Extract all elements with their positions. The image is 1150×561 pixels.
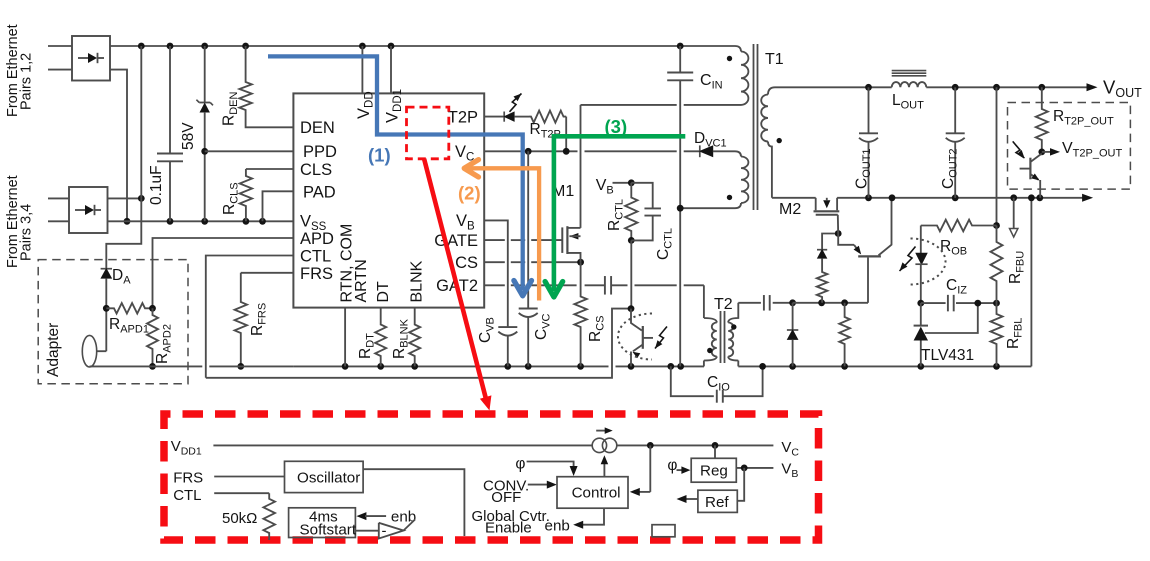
resistor RAPD1 — [106, 303, 152, 313]
svg-text:Ref: Ref — [705, 494, 729, 511]
pin label DT — [375, 281, 392, 303]
svg-text:0.1uF: 0.1uF — [148, 165, 165, 205]
svg-text:TLV431: TLV431 — [921, 347, 974, 364]
resistor RCTL — [625, 183, 637, 241]
diode + resistor to M2 gate node — [822, 234, 838, 250]
wire+cap: T2 secondary output — [738, 302, 761, 304]
capacitor CCTL — [631, 183, 652, 209]
LED + light arrow on T2P — [484, 116, 504, 118]
capacitor COUT2 — [954, 87, 956, 133]
optocoupler transistor T2P_OUT — [1029, 158, 1031, 180]
wire reg to VB — [736, 467, 773, 469]
wire: PPD to zener node — [205, 150, 294, 152]
annotation orange path (2) — [469, 168, 539, 300]
wire: primary ground rail — [293, 365, 608, 367]
svg-text:DT: DT — [375, 281, 392, 303]
T1 secondary winding — [768, 87, 775, 94]
svg-text:Oscillator: Oscillator — [297, 469, 360, 486]
svg-text:FRS: FRS — [173, 470, 203, 487]
wire: VSS rail (negative) — [108, 220, 294, 222]
pin label BLNK — [409, 260, 426, 302]
diode DA — [106, 198, 141, 268]
arrow VT2P_OUT — [1042, 151, 1052, 153]
wire: M2-gate drive rail — [793, 302, 868, 304]
svg-text:ARTN: ARTN — [353, 259, 370, 302]
wire: FRS pin — [241, 272, 294, 274]
T2 secondary winding — [728, 303, 738, 323]
reg block — [691, 458, 736, 482]
wire: output return rail — [772, 197, 816, 199]
annotation green path (3) — [554, 136, 685, 291]
svg-text:φ: φ — [667, 457, 677, 474]
T2 primary polarity dot — [707, 348, 712, 353]
wire: VC line (detail) — [617, 444, 774, 446]
label: Adapter — [45, 323, 62, 377]
wire: VDD1 to current source — [213, 444, 592, 446]
resistor RDT — [375, 308, 386, 367]
rectifier diode (T2 out) — [792, 303, 794, 330]
transistor M1 MOSFET — [561, 227, 563, 253]
resistor to ground (gate bleeder) — [839, 303, 850, 367]
svg-text:FRS: FRS — [300, 265, 333, 283]
transformer T1 core — [753, 44, 755, 210]
wire: RCTL bottom to opto collector node — [630, 240, 632, 308]
inductor LOUT — [892, 82, 927, 87]
IC U1 LM5072 body — [293, 93, 484, 307]
label: From Ethernet Pairs 1,2 — [5, 24, 21, 117]
svg-text:(3): (3) — [605, 116, 628, 137]
wire FRS to oscillator — [214, 476, 284, 478]
resistor ROB — [921, 220, 997, 232]
T1 primary polarity dot — [727, 56, 732, 61]
wire CTL + 50k resistor — [214, 492, 269, 494]
resistor RFBU — [991, 226, 1003, 304]
wire: RTN/COM to ground — [344, 308, 346, 367]
resistor RFRS — [235, 273, 247, 367]
svg-text:T2P: T2P — [448, 109, 478, 127]
annotation blue path (1) — [268, 56, 523, 290]
svg-text:APD: APD — [300, 230, 334, 248]
T1 aux polarity dot — [727, 195, 732, 200]
adapter dashed box — [38, 260, 188, 384]
svg-text:50kΩ: 50kΩ — [222, 510, 257, 527]
wire: BR2 inputs — [48, 197, 69, 199]
svg-text:(2): (2) — [458, 183, 481, 204]
resistor RT2P — [529, 111, 566, 123]
svg-text:T2: T2 — [714, 296, 733, 313]
svg-text:PPD: PPD — [303, 143, 337, 161]
T2 secondary polarity dot — [731, 324, 736, 329]
pin VDD1 riser + label — [390, 46, 392, 93]
pin label RTN COM — [339, 224, 356, 303]
resistor RDEN — [239, 46, 251, 113]
small block (unlabeled) — [652, 525, 675, 537]
svg-text:Softstart: Softstart — [300, 522, 357, 539]
wire into control right — [649, 445, 651, 492]
wire: VOUT rail — [775, 86, 892, 88]
T2 primary winding — [704, 318, 717, 323]
current source symbol — [592, 438, 606, 452]
T2P_OUT dashed box — [1008, 103, 1131, 190]
diode bridge BR1 (pairs 1,2) — [72, 36, 110, 81]
svg-text:(1): (1) — [368, 145, 391, 166]
wire: VB pin to CVB — [484, 220, 508, 327]
optocoupler LED (secondary side) — [916, 253, 927, 264]
wire: PAD to VSS rail — [263, 191, 294, 221]
svg-text:Pairs 3,4: Pairs 3,4 — [19, 204, 35, 261]
wire: CTL pin to lower rail — [206, 256, 294, 378]
enb output arrow from control — [582, 508, 605, 525]
connector plug (adapter) — [82, 335, 96, 367]
svg-text:Enable: Enable — [485, 520, 532, 537]
transformer T2 core — [720, 311, 722, 363]
svg-text:Reg: Reg — [700, 462, 728, 479]
svg-text:CTL: CTL — [300, 248, 331, 266]
svg-text:-: - — [382, 523, 387, 540]
svg-text:BLNK: BLNK — [409, 260, 426, 302]
wire: GAT2 pin — [484, 284, 505, 286]
wire: BR1 negative output — [110, 70, 127, 222]
diode DVC1 — [699, 145, 701, 157]
svg-text:OFF: OFF — [491, 489, 521, 506]
capacitor CIO — [671, 366, 714, 396]
svg-text:Pairs 1,2: Pairs 1,2 — [19, 53, 35, 110]
wire: BR1 inputs — [48, 45, 72, 47]
light arrow into T2P_OUT transistor — [1013, 141, 1025, 158]
light arrow into opto transistor — [655, 327, 667, 349]
arrow from ref to left — [685, 498, 698, 500]
svg-text:Control: Control — [572, 485, 621, 502]
zener diode 58V — [204, 46, 206, 103]
pin VDD riser + label — [361, 46, 363, 93]
T1 primary winding — [735, 46, 741, 52]
svg-text:φ: φ — [515, 456, 525, 473]
red dashed sub-block marker in IC — [407, 107, 449, 159]
comparator (softstart enable) — [355, 530, 378, 532]
wire: APD pin — [153, 238, 294, 308]
transistor Q1 (sync driver PNP) — [838, 234, 854, 245]
svg-text:DEN: DEN — [300, 119, 335, 137]
resistor RT2P_OUT — [1036, 87, 1048, 152]
resistor RBLNK — [409, 308, 420, 367]
wire: M1 drain to T1 primary — [581, 104, 677, 106]
svg-text:CS: CS — [455, 254, 478, 272]
transistor M2 MOSFET (sync rectifier) — [815, 198, 817, 211]
svg-text:CLS: CLS — [300, 161, 332, 179]
T1 aux winding — [735, 151, 741, 156]
enb arrow into softstart — [356, 512, 366, 520]
svg-text:Adapter: Adapter — [45, 323, 62, 377]
softstart block — [289, 508, 356, 538]
diode bridge BR2 (pairs 3,4) — [69, 187, 108, 233]
light arrow from LED — [900, 247, 916, 272]
wire: adapter ground rail — [90, 365, 203, 367]
resistor RFBL — [991, 303, 1003, 366]
capacitor 0.1uF — [169, 46, 171, 154]
resistor RCS — [574, 262, 586, 366]
resistor RCLS — [246, 168, 294, 170]
oscillator block — [285, 461, 364, 492]
capacitor COUT1 — [868, 87, 870, 133]
wire ref to VB node — [737, 468, 744, 501]
wire: VOUT to feedback divider — [996, 87, 998, 225]
wire: CS pin — [484, 261, 505, 263]
wire: top positive rail — [110, 45, 735, 47]
svg-text:T1: T1 — [765, 51, 784, 68]
red dashed detail box — [164, 414, 819, 540]
wire: CTL feedback lower rail — [206, 309, 631, 378]
svg-text:58V: 58V — [180, 122, 197, 150]
shunt regulator TLV431 — [914, 325, 928, 327]
wire: oscillator output — [363, 469, 464, 536]
red arrow to detail box — [424, 159, 486, 399]
pin label ARTN — [353, 259, 370, 302]
wire: VC rail — [484, 150, 577, 152]
T1 secondary polarity dot — [777, 138, 782, 143]
control block — [557, 477, 628, 509]
svg-text:PAD: PAD — [303, 184, 336, 202]
capacitor CVC — [527, 151, 529, 308]
open arrow return marker — [1013, 198, 1015, 228]
label: From Ethernet Pairs 3,4 — [5, 175, 21, 268]
ref block — [698, 490, 737, 512]
wire: GATE pin to M1 — [484, 239, 505, 241]
capacitor CIN — [679, 46, 681, 73]
svg-text:GATE: GATE — [434, 232, 478, 250]
capacitor CVB — [498, 326, 517, 328]
arrow control to current source — [603, 461, 605, 477]
optocoupler transistor (primary side) — [631, 309, 642, 331]
resistor RAPD2 — [147, 308, 158, 366]
capacitor CIZ — [921, 302, 946, 304]
wire: secondary ground rail — [738, 365, 1031, 367]
svg-text:M2: M2 — [779, 201, 801, 218]
svg-text:CTL: CTL — [173, 487, 201, 504]
wire VC to reg — [714, 445, 716, 458]
wire: BR2 positive output to rail riser — [108, 197, 142, 199]
capacitor on GAT2 (to T2) — [604, 276, 606, 295]
